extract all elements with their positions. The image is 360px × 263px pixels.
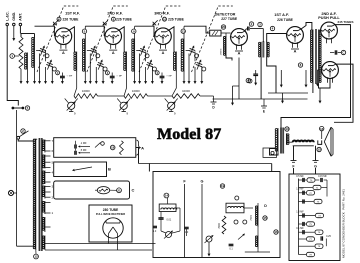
svg-text:1.0 MF: 1.0 MF bbox=[296, 210, 304, 213]
gang tuning dashed link bbox=[87, 6, 113, 72]
svg-text:13: 13 bbox=[285, 127, 289, 131]
svg-text:L.&C.: L.&C. bbox=[6, 11, 10, 20]
wire primary to B+ chain bbox=[124, 71, 127, 96]
callout 16t bbox=[320, 126, 324, 130]
wire grid lead bbox=[85, 26, 104, 36]
resistor bias R2 10000 bbox=[74, 94, 98, 99]
wire grid returns bbox=[312, 83, 314, 93]
filament box A bbox=[54, 138, 136, 158]
svg-text:20: 20 bbox=[222, 25, 226, 29]
svg-text:A: A bbox=[112, 51, 115, 55]
cathode bypass capacitor bbox=[160, 75, 165, 77]
svg-text:226 TUBE: 226 TUBE bbox=[168, 18, 185, 22]
field choke upper bbox=[257, 206, 259, 227]
grid clip bbox=[53, 22, 57, 26]
wire det grid bbox=[184, 26, 210, 33]
tuning capacitor C2 bbox=[90, 50, 96, 52]
terminal ANT bbox=[19, 23, 22, 26]
svg-text:A: A bbox=[238, 52, 241, 56]
wire HV to filter bbox=[136, 148, 139, 164]
output transformer T4 primary bbox=[277, 128, 279, 153]
svg-text:12: 12 bbox=[34, 255, 38, 259]
callout near trimmer bbox=[152, 67, 156, 71]
coil L4 secondary bbox=[183, 39, 185, 72]
wire R1 to ground bbox=[20, 69, 22, 82]
coil L2 primary bbox=[76, 52, 78, 72]
callout 9b bbox=[246, 78, 250, 82]
left loop wire bbox=[270, 149, 279, 156]
svg-text:10000: 10000 bbox=[82, 89, 90, 93]
callout near trimmer bbox=[103, 67, 107, 71]
wire heater arrows bbox=[282, 93, 284, 101]
power switch bbox=[17, 136, 20, 139]
tube V7 245 push-pull lower bbox=[322, 62, 339, 79]
potentiometer P2 bbox=[120, 102, 127, 109]
output transformer core bbox=[279, 128, 281, 154]
power transformer core bbox=[38, 138, 40, 251]
tube V6 245 push-pull upper bbox=[321, 22, 338, 39]
wire AF plate up-over bbox=[301, 23, 312, 31]
wire T1 sec to AF grid bbox=[267, 34, 287, 43]
speaker cone bbox=[324, 127, 331, 156]
switch in A bbox=[95, 143, 101, 148]
svg-text:226 TUBE: 226 TUBE bbox=[277, 18, 294, 22]
ground E bbox=[263, 99, 265, 106]
wire coil top to grid line bbox=[84, 33, 86, 39]
transformer taps bbox=[45, 140, 51, 142]
wire detector cathode down bbox=[238, 58, 240, 100]
cathode bypass capacitor bbox=[60, 75, 65, 77]
condenser row 1 bbox=[299, 179, 307, 181]
condenser row 6 bbox=[299, 223, 307, 225]
callout 22 bbox=[249, 22, 253, 26]
wire PP lower plate bbox=[334, 64, 353, 122]
resistor divider bbox=[222, 216, 226, 234]
capacitor .1MF bbox=[74, 145, 76, 149]
svg-text:A: A bbox=[294, 50, 297, 54]
callout 14 bbox=[164, 193, 169, 198]
svg-text:7770: 7770 bbox=[250, 215, 253, 221]
arrow in B bbox=[75, 167, 93, 170]
wire chain links bbox=[98, 95, 125, 97]
callout coil 9 bbox=[132, 29, 136, 33]
coil L4 primary bbox=[175, 52, 177, 72]
callout coil 13 bbox=[181, 29, 185, 33]
svg-text:10000: 10000 bbox=[132, 89, 140, 93]
terminal G speaker bbox=[315, 146, 317, 161]
svg-text:D: D bbox=[264, 204, 267, 208]
rectifier arrow bbox=[238, 235, 243, 239]
bracket A bbox=[137, 140, 141, 155]
callout near tuning cap bbox=[195, 54, 199, 58]
callout 5 bbox=[25, 106, 29, 110]
wire plate to primary coil bbox=[169, 27, 175, 52]
gang tuning dashed link bbox=[139, 6, 166, 72]
svg-text:1ST R.F.: 1ST R.F. bbox=[65, 12, 80, 16]
condenser row 2 bbox=[299, 187, 313, 189]
callout 1 bbox=[10, 54, 15, 59]
svg-text:DETECTOR: DETECTOR bbox=[215, 12, 236, 16]
callout near trimmer bbox=[202, 67, 206, 71]
svg-text:226 TUBE: 226 TUBE bbox=[63, 18, 80, 22]
condenser bus bbox=[298, 179, 300, 255]
svg-text:MODEL 87 CONDENSER BLOCK PAR: MODEL 87 CONDENSER BLOCK PART No. 2481 bbox=[342, 189, 346, 258]
svg-text:1.0 MF: 1.0 MF bbox=[296, 188, 304, 191]
filament box C bbox=[54, 181, 130, 199]
grid leak choke bbox=[225, 36, 227, 56]
svg-text:0.1 MF: 0.1 MF bbox=[296, 227, 304, 230]
callout C bbox=[341, 50, 345, 54]
wire coil bottom ground bbox=[34, 69, 36, 82]
tube V2 2ST R.F. 226 bbox=[105, 28, 122, 45]
condenser row 5 bbox=[299, 215, 316, 217]
af transformer T1 core bbox=[262, 41, 264, 57]
grid clip bbox=[103, 22, 107, 26]
potentiometer P1 bbox=[68, 102, 75, 109]
tube V1 1ST R.F. 226 bbox=[55, 28, 72, 45]
condenser row 7 bbox=[299, 231, 315, 233]
tube V8 280 rectifier bbox=[103, 218, 123, 238]
power transformer secondaries bbox=[44, 140, 46, 153]
capacitor 0.01 bbox=[158, 217, 163, 219]
wire grid lead bbox=[135, 26, 154, 36]
output transformer secondary bbox=[285, 133, 287, 145]
wire grid lead bbox=[35, 26, 55, 36]
filter box outline bbox=[153, 172, 280, 258]
condenser row 3 bbox=[299, 192, 307, 194]
svg-text:13: 13 bbox=[182, 29, 186, 33]
svg-text:Model 87: Model 87 bbox=[157, 126, 221, 143]
wire primary to B+ chain bbox=[172, 71, 176, 96]
callout 24 bbox=[270, 26, 274, 30]
tube V5 1st A.F. 226 bbox=[287, 27, 304, 44]
resistor bias R3 10000 bbox=[124, 94, 148, 99]
wire cap leads bbox=[36, 50, 39, 52]
condenser row 9 bbox=[299, 245, 315, 247]
condenser extra bbox=[320, 236, 322, 240]
wire mains lead bbox=[7, 26, 18, 106]
svg-text:A: A bbox=[162, 51, 165, 55]
af transformer T1 secondary bbox=[266, 42, 268, 57]
svg-text:0.15 MF: 0.15 MF bbox=[318, 175, 327, 178]
wire coil bottom ground bbox=[183, 71, 185, 82]
wire coil bottom ground bbox=[134, 71, 136, 82]
callout 21 bbox=[117, 188, 122, 193]
svg-text:245 TUBES: 245 TUBES bbox=[337, 20, 353, 24]
tube V4 detector 227 bbox=[231, 29, 248, 46]
tuning capacitor C3 bbox=[139, 50, 145, 52]
svg-text:16: 16 bbox=[274, 230, 278, 234]
cathode bypass capacitor bbox=[110, 75, 115, 77]
svg-text:21: 21 bbox=[117, 189, 121, 193]
grid clip bbox=[153, 22, 157, 26]
wire rectifier filament lines bbox=[51, 243, 156, 245]
wire cap leads bbox=[87, 50, 90, 52]
gang tuning dashed link bbox=[192, 6, 219, 72]
callout near tuning cap bbox=[145, 54, 149, 58]
rectifier box bbox=[89, 205, 132, 242]
svg-text:226 TUBE: 226 TUBE bbox=[116, 18, 133, 22]
callout near tuning cap bbox=[96, 54, 100, 58]
svg-text:14: 14 bbox=[165, 194, 169, 198]
trimmer capacitor C3t bbox=[146, 64, 152, 66]
svg-text:FULL WAVE RECTIFIER: FULL WAVE RECTIFIER bbox=[96, 212, 125, 216]
tube V3 3ST R.F. 226 bbox=[155, 28, 172, 45]
choke CH1 bbox=[159, 204, 176, 212]
wire G to block bbox=[315, 168, 317, 174]
svg-text:A: A bbox=[141, 145, 144, 150]
wire plate to primary coil bbox=[119, 27, 125, 52]
svg-text:A: A bbox=[62, 51, 65, 55]
wire antenna lead bbox=[19, 26, 21, 34]
plate blocking capacitor bbox=[247, 27, 249, 31]
field coil bbox=[293, 140, 314, 142]
svg-text:1 MEG: 1 MEG bbox=[221, 48, 223, 55]
filament box B bbox=[54, 162, 107, 177]
wire coil top to grid line bbox=[134, 33, 136, 39]
trimmer capacitor C1t bbox=[46, 64, 52, 66]
svg-text:0.5 MF: 0.5 MF bbox=[296, 175, 304, 178]
junction box small bbox=[263, 148, 277, 157]
wire PP cathode bbox=[318, 69, 322, 71]
wire cap leads bbox=[186, 50, 189, 52]
svg-text:.5 MF: .5 MF bbox=[80, 148, 87, 152]
wire detector plate bbox=[245, 29, 247, 32]
potentiometer P3 bbox=[168, 102, 175, 109]
coupling capacitor C bbox=[334, 50, 336, 54]
tuning capacitor C4 bbox=[189, 50, 195, 52]
callout 20 bbox=[221, 25, 225, 29]
capacitor .5MF bbox=[74, 151, 76, 155]
coil L3 primary bbox=[126, 52, 128, 72]
svg-text:2ND R.F.: 2ND R.F. bbox=[107, 12, 122, 16]
condenser row 10 bbox=[299, 254, 307, 256]
wires filter right bbox=[257, 226, 259, 236]
svg-text:0.25: 0.25 bbox=[326, 235, 331, 238]
svg-text:16: 16 bbox=[320, 127, 324, 131]
callout 18 bbox=[110, 145, 115, 150]
svg-text:227 TUBE: 227 TUBE bbox=[221, 17, 238, 21]
wire coil bottom ground bbox=[84, 71, 86, 82]
svg-text:10000: 10000 bbox=[182, 89, 190, 93]
capacitor 0.1 bbox=[229, 243, 234, 245]
gang tuning dashed link bbox=[37, 6, 64, 72]
callout 19 bbox=[220, 184, 224, 188]
ground arrow below box bbox=[208, 242, 210, 254]
tuning capacitor C1 bbox=[39, 50, 45, 52]
svg-text:10: 10 bbox=[163, 17, 167, 21]
coil L3 secondary bbox=[134, 39, 136, 72]
interstage transformer T2 primary bbox=[312, 30, 314, 84]
wire primary to B+ chain bbox=[74, 71, 77, 96]
coil L1 secondary bbox=[34, 37, 36, 70]
svg-text:GND.: GND. bbox=[12, 12, 16, 21]
trimmer capacitor C2t bbox=[97, 64, 103, 66]
svg-text:0.01: 0.01 bbox=[167, 219, 172, 222]
callout near tuning cap bbox=[45, 54, 49, 58]
callout 15t bbox=[317, 147, 321, 151]
svg-text:7000: 7000 bbox=[218, 223, 221, 229]
fuse bbox=[12, 107, 24, 109]
rf bypass capacitor bbox=[253, 73, 258, 75]
terminal GND bbox=[13, 23, 16, 26]
wire plate to primary coil bbox=[69, 27, 75, 52]
callout 15 bbox=[263, 216, 267, 220]
pilot lamp bbox=[8, 190, 13, 195]
svg-text:15: 15 bbox=[263, 216, 267, 220]
grid condenser bbox=[210, 30, 221, 36]
condenser block box bbox=[289, 174, 340, 261]
power transformer T3 primary bbox=[33, 138, 37, 140]
svg-text:G: G bbox=[201, 180, 204, 184]
terminal L&C bbox=[6, 23, 9, 26]
callout 23 bbox=[258, 22, 262, 26]
wire cap leads bbox=[136, 50, 139, 52]
ground D right of chain bbox=[200, 95, 214, 97]
interstage transformer T2 secondary bbox=[318, 30, 320, 84]
capacitor 1.0 mid bbox=[184, 226, 188, 228]
ground lead arrow bbox=[13, 26, 15, 39]
callout 2sw bbox=[21, 129, 25, 133]
wire choke feed bbox=[148, 164, 150, 172]
wire coil top to grid line bbox=[183, 33, 185, 39]
svg-text:G: G bbox=[314, 165, 317, 169]
wire ant splice bbox=[21, 33, 35, 35]
svg-text:C: C bbox=[132, 188, 135, 193]
svg-text:E: E bbox=[263, 110, 265, 114]
callout 7 bbox=[248, 79, 252, 83]
af transformer T1 primary bbox=[260, 42, 262, 57]
svg-text:19: 19 bbox=[221, 184, 225, 188]
resistor in A bbox=[120, 141, 124, 155]
svg-text:1ST A.F.: 1ST A.F. bbox=[274, 13, 289, 17]
callout 8 bbox=[298, 63, 302, 67]
svg-text:.1 MF: .1 MF bbox=[80, 141, 87, 145]
svg-text:ANT.: ANT. bbox=[19, 13, 23, 21]
trimmer capacitor C4t bbox=[196, 64, 202, 66]
svg-text:B: B bbox=[108, 167, 111, 172]
coil L1 primary bbox=[26, 53, 28, 70]
interstage transformer T2 core bbox=[314, 29, 316, 84]
svg-text:15: 15 bbox=[317, 148, 321, 152]
field choke lower bbox=[257, 236, 259, 249]
svg-text:18: 18 bbox=[111, 146, 115, 150]
condenser row 4 bbox=[299, 201, 314, 203]
condenser row 8 bbox=[299, 238, 307, 240]
speaker unit bbox=[318, 140, 322, 144]
wire F to block bbox=[293, 168, 295, 174]
resistor R1 antenna bbox=[19, 37, 23, 69]
choke CH2 bbox=[226, 203, 244, 213]
coil L2 secondary bbox=[84, 39, 86, 72]
bus wire y99 bbox=[213, 98, 308, 100]
callout 12 bbox=[34, 254, 39, 259]
capacitor 1.0 left bbox=[153, 225, 157, 227]
resistor bias R4 10000 bbox=[172, 94, 200, 99]
wire to switch bbox=[16, 110, 18, 246]
wires under AF tube bbox=[280, 70, 282, 85]
callout 13t bbox=[285, 127, 289, 131]
callout near trimmer bbox=[52, 67, 56, 71]
svg-text:280 TUBE: 280 TUBE bbox=[103, 208, 119, 212]
dial lamp in C bbox=[97, 187, 109, 194]
hum potentiometer bbox=[166, 232, 172, 238]
svg-text:3RD R.F.: 3RD R.F. bbox=[154, 12, 169, 16]
terminal F speaker bbox=[293, 146, 295, 161]
callout pair bbox=[234, 220, 238, 224]
wire lamp bottom to transformer bbox=[17, 245, 34, 247]
callout coil 5 bbox=[82, 29, 86, 33]
wire PP upper plate bbox=[281, 25, 351, 128]
divider potentiometer bbox=[206, 236, 212, 242]
callout 16 bbox=[274, 230, 278, 234]
